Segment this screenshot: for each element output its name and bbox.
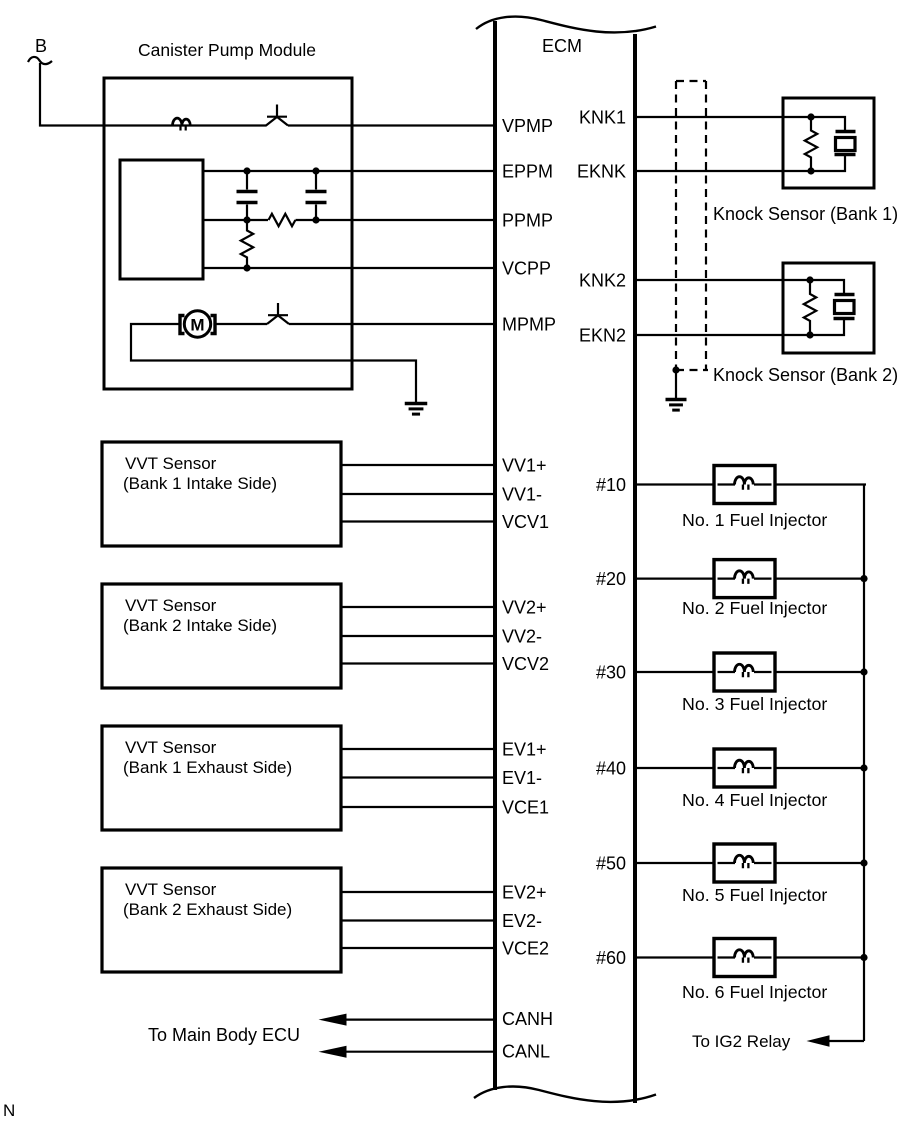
wire injector 5 to IG2 bus bbox=[775, 862, 866, 864]
VVT sensor 4 box bbox=[102, 868, 341, 972]
svg-text:VVT Sensor: VVT Sensor bbox=[125, 454, 217, 473]
junction dot bus #60 bbox=[860, 954, 867, 961]
svg-text:EKNK: EKNK bbox=[577, 162, 626, 182]
injector 1 coil (through-line) bbox=[718, 483, 736, 485]
wire CANL bbox=[345, 1051, 494, 1053]
ECM top torn edge (wavy) bbox=[476, 17, 656, 33]
svg-text:VCE2: VCE2 bbox=[502, 939, 549, 959]
junction dot PPMP/C1/R2 bbox=[243, 216, 250, 223]
wire EV2- bbox=[341, 919, 494, 921]
wire injector 1 to IG2 bus bbox=[775, 483, 866, 485]
svg-text:No. 5 Fuel Injector: No. 5 Fuel Injector bbox=[682, 885, 827, 905]
wire shield to ground bbox=[675, 370, 677, 399]
fuel injector 6 box bbox=[714, 939, 775, 977]
wire ECM #40 to injector 4 bbox=[637, 767, 715, 769]
svg-text:(Bank 2 Exhaust Side): (Bank 2 Exhaust Side) bbox=[123, 900, 292, 919]
wire VCE1 bbox=[341, 806, 494, 808]
wire VV1- bbox=[341, 493, 494, 495]
wire VV2- bbox=[341, 635, 494, 637]
wire SW2 to ECM MPMP pin bbox=[289, 323, 494, 325]
svg-text:VV2+: VV2+ bbox=[502, 598, 547, 618]
svg-text:No. 1 Fuel Injector: No. 1 Fuel Injector bbox=[682, 510, 827, 530]
injector 3 coil (through-line) bbox=[718, 671, 736, 673]
VVT sensor 3 box bbox=[102, 726, 341, 830]
wire VCE2 bbox=[341, 947, 494, 949]
svg-text:#10: #10 bbox=[596, 475, 626, 495]
knock sensor 2 box bbox=[783, 263, 874, 353]
junction dot EPPM/C2 bbox=[312, 167, 319, 174]
svg-text:PPMP: PPMP bbox=[502, 211, 553, 231]
VVT sensor 3 label bbox=[123, 738, 292, 777]
junction dot bus #30 bbox=[860, 668, 867, 675]
ground symbol (pump motor) bbox=[405, 404, 428, 415]
injector 6 coil out line bbox=[754, 956, 772, 958]
wire EKNK bbox=[637, 170, 812, 172]
junction dot KNK2 internal top bbox=[806, 276, 813, 283]
wire EV2+ bbox=[341, 891, 494, 893]
wire VCPP line bbox=[203, 267, 494, 269]
VVT sensor 1 box bbox=[102, 442, 341, 546]
injector 6 coil bbox=[735, 950, 754, 963]
svg-text:EKN2: EKN2 bbox=[579, 326, 626, 346]
wire EPPM line bbox=[203, 170, 494, 172]
svg-text:VCV1: VCV1 bbox=[502, 512, 549, 532]
ECM bottom torn edge (wavy) bbox=[474, 1087, 656, 1102]
capacitor C2 bbox=[306, 171, 327, 220]
wire bus to IG2 relay arrow bbox=[828, 1040, 864, 1042]
wire SW1 to ECM VPMP pin bbox=[288, 124, 494, 126]
injector 4 coil bbox=[735, 760, 754, 773]
svg-text:Canister Pump Module: Canister Pump Module bbox=[138, 40, 316, 60]
junction dot bus #50 bbox=[860, 859, 867, 866]
svg-text:VVT Sensor: VVT Sensor bbox=[125, 738, 217, 757]
svg-text:N: N bbox=[3, 1101, 15, 1120]
junction dot KNK1 internal top bbox=[807, 113, 814, 120]
wire injector 6 to IG2 bus bbox=[775, 956, 866, 958]
injector 5 coil out line bbox=[754, 862, 772, 864]
wire injector 4 to IG2 bus bbox=[775, 767, 866, 769]
wire PPMP line (right of R1) bbox=[296, 219, 494, 221]
piezo element (knock sensor 1) bbox=[811, 117, 856, 171]
svg-text:KNK1: KNK1 bbox=[579, 108, 626, 128]
junction dot bus #40 bbox=[860, 764, 867, 771]
junction dot EPPM/C1 bbox=[243, 167, 250, 174]
svg-text:Knock Sensor (Bank 2): Knock Sensor (Bank 2) bbox=[713, 365, 898, 385]
svg-text:EV2+: EV2+ bbox=[502, 883, 547, 903]
svg-text:KNK2: KNK2 bbox=[579, 271, 626, 291]
injector 4 coil (through-line) bbox=[718, 767, 736, 769]
switch SW1 (pump relay contact) on VPMP line bbox=[266, 105, 288, 126]
VVT sensor 2 label bbox=[123, 596, 277, 635]
wire EV1+ bbox=[341, 748, 494, 750]
injector 1 coil bbox=[735, 477, 754, 490]
resistor R2 (vertical) bbox=[241, 220, 253, 268]
wire ECM #20 to injector 2 bbox=[637, 577, 715, 579]
svg-text:VV1-: VV1- bbox=[502, 485, 542, 505]
junction dot bus #20 bbox=[860, 575, 867, 582]
resistor (knock sensor 2) bbox=[804, 280, 816, 335]
fuel injector 3 box bbox=[714, 653, 775, 691]
svg-text:MPMP: MPMP bbox=[502, 315, 556, 335]
junction dot shield-to-ground bbox=[672, 366, 679, 373]
wire VV2+ bbox=[341, 606, 494, 608]
canister pump module box bbox=[104, 78, 352, 389]
wire VCV2 bbox=[341, 662, 494, 664]
svg-text:M: M bbox=[190, 316, 204, 335]
svg-text:VV1+: VV1+ bbox=[502, 456, 547, 476]
svg-text:VV2-: VV2- bbox=[502, 627, 542, 647]
wire injector 3 to IG2 bus bbox=[775, 671, 866, 673]
svg-text:EV1+: EV1+ bbox=[502, 740, 547, 760]
piezo element (knock sensor 2) bbox=[810, 280, 855, 335]
wire VCV1 bbox=[341, 520, 494, 522]
resistor R1 (horizontal, PPMP line) bbox=[269, 214, 296, 226]
fuel injector 4 box bbox=[714, 749, 775, 787]
wire KNK2 bbox=[637, 279, 811, 281]
ECM left edge bbox=[493, 21, 497, 1090]
injector 5 coil (through-line) bbox=[718, 862, 736, 864]
svg-text:#30: #30 bbox=[596, 663, 626, 683]
shield (dashed) around knock sensor wires bbox=[676, 81, 708, 370]
inductor L1 on VPMP line bbox=[173, 118, 191, 130]
wire motor to SW2 bbox=[216, 323, 267, 325]
svg-text:VPMP: VPMP bbox=[502, 116, 553, 136]
svg-text:CANH: CANH bbox=[502, 1009, 553, 1029]
fuel injector 5 box bbox=[714, 844, 775, 882]
wire ECM #50 to injector 5 bbox=[637, 862, 715, 864]
svg-text:No. 2 Fuel Injector: No. 2 Fuel Injector bbox=[682, 598, 827, 618]
svg-text:Knock Sensor (Bank 1): Knock Sensor (Bank 1) bbox=[713, 204, 898, 224]
junction dot VCPP/R2 bbox=[243, 264, 250, 271]
svg-text:#50: #50 bbox=[596, 854, 626, 874]
wire injector 2 to IG2 bus bbox=[775, 577, 866, 579]
svg-text:EV1-: EV1- bbox=[502, 768, 542, 788]
svg-text:VCE1: VCE1 bbox=[502, 798, 549, 818]
svg-text:No. 4 Fuel Injector: No. 4 Fuel Injector bbox=[682, 790, 827, 810]
injector 6 coil (through-line) bbox=[718, 956, 736, 958]
fuel injector 1 box bbox=[714, 466, 775, 504]
wire ECM #60 to injector 6 bbox=[637, 956, 715, 958]
svg-text:(Bank 2 Intake Side): (Bank 2 Intake Side) bbox=[123, 616, 277, 635]
svg-text:VCPP: VCPP bbox=[502, 259, 551, 279]
svg-text:VVT Sensor: VVT Sensor bbox=[125, 880, 217, 899]
junction dot KNK1 internal bottom bbox=[807, 167, 814, 174]
svg-text:#60: #60 bbox=[596, 948, 626, 968]
knock sensor 1 box bbox=[783, 98, 874, 188]
ECM right edge bbox=[633, 34, 637, 1103]
injector 5 coil bbox=[735, 855, 754, 868]
svg-text:To IG2 Relay: To IG2 Relay bbox=[692, 1032, 791, 1051]
injector 2 coil out line bbox=[754, 577, 772, 579]
svg-text:(Bank 1 Intake Side): (Bank 1 Intake Side) bbox=[123, 474, 277, 493]
svg-text:No. 6 Fuel Injector: No. 6 Fuel Injector bbox=[682, 982, 827, 1002]
svg-text:To Main Body ECU: To Main Body ECU bbox=[148, 1025, 300, 1045]
controller sub-module box bbox=[120, 160, 203, 279]
svg-text:No. 3 Fuel Injector: No. 3 Fuel Injector bbox=[682, 694, 827, 714]
motor M1 (canister pump motor) bbox=[180, 311, 215, 337]
svg-text:ECM: ECM bbox=[542, 36, 582, 56]
switch SW2 (motor contact) bbox=[267, 303, 289, 324]
injector 2 coil (through-line) bbox=[718, 577, 736, 579]
IG2 relay bus (vertical) bbox=[863, 485, 865, 1042]
svg-text:VCV2: VCV2 bbox=[502, 654, 549, 674]
wire ECM #30 to injector 3 bbox=[637, 671, 715, 673]
injector 4 coil out line bbox=[754, 767, 772, 769]
VVT sensor 2 box bbox=[102, 584, 341, 688]
injector 3 coil bbox=[735, 664, 754, 677]
wire PPMP line (left of R1) bbox=[203, 219, 268, 221]
arrowhead To IG2 Relay bbox=[807, 1035, 830, 1047]
break squiggle at node B bbox=[28, 57, 52, 64]
VVT sensor 4 label bbox=[123, 880, 292, 919]
svg-text:#40: #40 bbox=[596, 759, 626, 779]
wire EV1- bbox=[341, 776, 494, 778]
resistor (knock sensor 1) bbox=[805, 117, 817, 171]
injector 1 coil out line bbox=[754, 483, 772, 485]
wire ECM #10 to injector 1 bbox=[637, 483, 715, 485]
wire motor return to ground bbox=[131, 324, 416, 403]
capacitor C1 bbox=[237, 171, 258, 220]
wire CANH bbox=[345, 1018, 494, 1020]
svg-text:EPPM: EPPM bbox=[502, 162, 553, 182]
junction dot KNK2 internal bottom bbox=[806, 331, 813, 338]
wire VV1+ bbox=[341, 464, 494, 466]
injector 2 coil bbox=[735, 571, 754, 584]
fuel injector 2 box bbox=[714, 560, 775, 598]
svg-text:EV2-: EV2- bbox=[502, 911, 542, 931]
svg-text:B: B bbox=[35, 36, 47, 56]
arrowhead CANL bbox=[319, 1046, 347, 1058]
injector 3 coil out line bbox=[754, 671, 772, 673]
wire B to VPMP (vertical drop + horizontal run) bbox=[40, 63, 267, 126]
wire EKN2 bbox=[637, 334, 811, 336]
wire KNK1 bbox=[637, 116, 812, 118]
arrowhead CANH bbox=[319, 1014, 347, 1026]
svg-text:(Bank 1 Exhaust Side): (Bank 1 Exhaust Side) bbox=[123, 758, 292, 777]
svg-text:CANL: CANL bbox=[502, 1042, 550, 1062]
svg-text:#20: #20 bbox=[596, 569, 626, 589]
junction dot PPMP/C2 bbox=[312, 216, 319, 223]
svg-text:VVT Sensor: VVT Sensor bbox=[125, 596, 217, 615]
ground symbol (knock shield) bbox=[666, 400, 687, 411]
VVT sensor 1 label bbox=[123, 454, 277, 493]
